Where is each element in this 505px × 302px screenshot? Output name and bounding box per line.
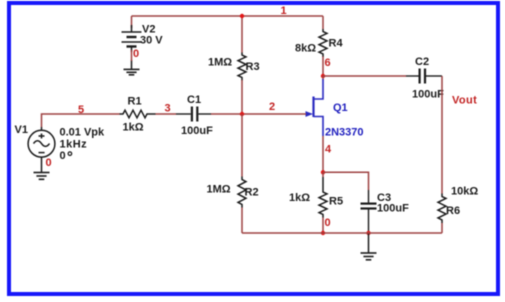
wire C1 to Q1 gate net 2 <box>211 113 306 115</box>
svg-text:1kΩ: 1kΩ <box>289 192 310 204</box>
resistor R1 <box>120 110 156 118</box>
svg-text:1: 1 <box>281 5 287 17</box>
svg-text:V1: V1 <box>15 124 28 136</box>
wire node 4 to C3 <box>323 172 369 190</box>
gate arrow of Q1 <box>306 111 314 117</box>
svg-text:C2: C2 <box>415 56 429 68</box>
wire node 6 to Q1 drain stub <box>322 76 324 80</box>
svg-text:0: 0 <box>46 157 52 169</box>
svg-text:R6: R6 <box>446 205 460 217</box>
wire R2 to bottom rail <box>241 208 243 234</box>
svg-text:0: 0 <box>60 150 66 162</box>
ground under V2 <box>124 69 140 74</box>
wire R5 to bottom rail <box>322 218 324 234</box>
resistor R2 <box>238 177 246 208</box>
resistor R5 <box>319 177 327 218</box>
junction node 2 <box>240 112 244 116</box>
svg-text:0: 0 <box>325 217 331 229</box>
svg-text:10kΩ: 10kΩ <box>451 185 478 197</box>
wire node 6 to C2 <box>323 75 406 77</box>
wire C3 to ground <box>368 233 370 253</box>
svg-text:C1: C1 <box>187 94 201 106</box>
svg-text:1MΩ: 1MΩ <box>208 56 232 68</box>
voltage source V1 <box>28 127 55 173</box>
junction C3 bottom <box>366 231 370 235</box>
resistor R6 <box>438 194 446 224</box>
wire node 2 down to R2 <box>241 114 243 177</box>
svg-text:100uF: 100uF <box>412 89 444 101</box>
junction node 6 <box>321 74 325 78</box>
svg-text:1kΩ: 1kΩ <box>123 121 144 133</box>
wire net 1 top rail <box>132 16 324 53</box>
wire R3 to node 2 <box>241 80 243 114</box>
svg-text:R4: R4 <box>329 38 344 50</box>
svg-text:R3: R3 <box>246 61 260 73</box>
svg-text:R2: R2 <box>245 187 259 199</box>
resistor R4 <box>319 29 327 57</box>
svg-text:5: 5 <box>78 104 84 116</box>
svg-text:1kHz: 1kHz <box>60 138 88 150</box>
capacitor C1 <box>176 107 211 122</box>
capacitor C2 <box>406 69 442 84</box>
svg-text:1MΩ: 1MΩ <box>207 184 231 196</box>
svg-text:30 V: 30 V <box>140 35 163 47</box>
ground under V1 <box>34 173 50 180</box>
resistor R3 <box>238 53 246 81</box>
svg-text:100uF: 100uF <box>377 202 409 214</box>
wire V1 to R1 net 5 <box>42 114 120 127</box>
wire Q1 source to node 4 <box>322 136 324 172</box>
wire node 4 to R5 <box>322 172 324 177</box>
svg-text:0.01 Vpk: 0.01 Vpk <box>60 126 106 138</box>
svg-text:100uF: 100uF <box>181 125 213 137</box>
svg-text:6: 6 <box>325 57 331 69</box>
junction node 4 <box>321 170 325 174</box>
svg-text:R5: R5 <box>329 195 343 207</box>
wire R6 to bottom rail <box>441 223 443 233</box>
junction top rail / R3 <box>240 14 244 18</box>
svg-text:2N3370: 2N3370 <box>325 127 364 139</box>
capacitor C3 <box>361 190 377 233</box>
wire bottom rail net 0 <box>242 232 442 234</box>
wire R4 to node 6 <box>322 57 324 77</box>
svg-text:Vout: Vout <box>452 95 477 107</box>
svg-text:Q1: Q1 <box>333 102 348 114</box>
junction R5 bottom <box>321 231 325 235</box>
svg-text:R1: R1 <box>128 96 142 108</box>
svg-text:4: 4 <box>325 143 332 155</box>
ground under C3 <box>361 253 377 260</box>
svg-text:0: 0 <box>133 48 139 60</box>
svg-text:3: 3 <box>165 103 171 115</box>
transistor Q1 <box>314 79 324 136</box>
svg-text:2: 2 <box>269 101 275 113</box>
svg-text:8kΩ: 8kΩ <box>295 42 316 54</box>
wire R1 to C1 net 3 <box>156 113 177 115</box>
wire V2 to ground <box>131 50 133 61</box>
voltage source V2 <box>122 25 142 69</box>
wire C2 down to R6 <box>441 76 443 194</box>
